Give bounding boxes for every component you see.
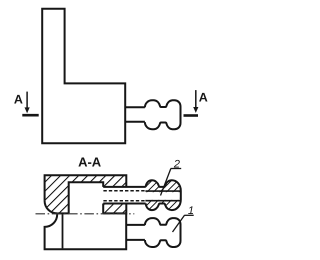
block outline (45, 175, 127, 213)
section mark A right: arrow (195, 90, 197, 107)
bracket L-shaped body outline (42, 9, 125, 144)
svg-text:1: 1 (188, 205, 194, 217)
section mark A left: thick trace (22, 114, 38, 117)
screw core lines inside knob (145, 190, 180, 192)
handle shaft (top view) (125, 106, 145, 108)
hatched bracket block: top strip (69, 175, 104, 182)
svg-text:2: 2 (173, 158, 180, 170)
leader line for 2 (161, 169, 171, 196)
section mark A left: arrow (26, 92, 28, 109)
screw thread root dashed lines (103, 190, 145, 192)
leader line for 1 (173, 215, 185, 232)
hatched bracket block: right column above screw (103, 175, 126, 187)
square hole outline (69, 182, 104, 213)
lower body outline (45, 214, 127, 250)
centerline (dash-dot) (36, 213, 135, 215)
svg-text:A: A (14, 92, 23, 106)
screw major diameter lines (103, 186, 146, 188)
lower body inner edge (62, 214, 64, 248)
screw knob (sectioned, hatched) (146, 180, 181, 210)
svg-text:A: A (199, 91, 208, 105)
handle knob (top view) (145, 100, 181, 129)
screw core band through knob (145, 192, 180, 200)
notch arc upper (45, 201, 58, 214)
hatched bracket block: left column with notch arc (45, 175, 69, 213)
lower handle knob (145, 218, 181, 247)
section mark A right: thick trace (184, 114, 199, 117)
hatched bracket block: right column below screw (103, 204, 126, 214)
svg-text:A-A: A-A (78, 155, 102, 170)
lower handle shaft (126, 224, 145, 226)
